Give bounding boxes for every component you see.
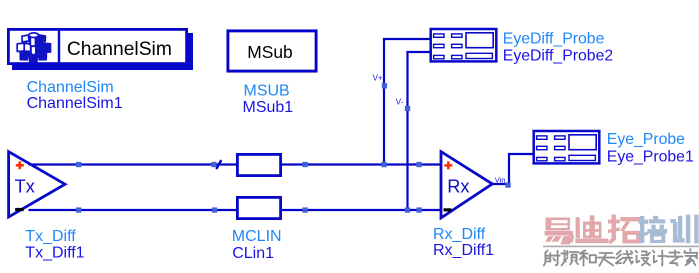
ChannelSim divider xyxy=(58,28,60,65)
svg-text:Tx_Diff1: Tx_Diff1 xyxy=(25,244,84,261)
svg-text:MCLIN: MCLIN xyxy=(232,228,282,245)
svg-text:MSUB: MSUB xyxy=(244,83,290,100)
component ChannelSim1 shadow xyxy=(12,33,193,70)
svg-text:MSub1: MSub1 xyxy=(243,99,294,116)
svg-text:Eye_Probe1: Eye_Probe1 xyxy=(607,148,694,165)
tagline char Jia xyxy=(684,249,697,265)
tagline char Ji xyxy=(653,251,657,263)
junction bottom wire x78 xyxy=(76,207,81,212)
pin slash on top wire xyxy=(216,160,221,169)
svg-text:Tx: Tx xyxy=(15,177,35,197)
Rx plus pin mark xyxy=(444,161,452,169)
svg-text:CLin1: CLin1 xyxy=(232,245,274,262)
svg-text:ChannelSim: ChannelSim xyxy=(27,79,114,96)
svg-text:Vin: Vin xyxy=(495,175,506,184)
wire V+ vertical to EyeDiff probe xyxy=(384,39,430,165)
watermark tagline (vector CJK strokes) xyxy=(544,249,698,266)
watermark char Pei xyxy=(638,216,667,243)
wire V- vertical to EyeDiff probe xyxy=(408,52,430,210)
svg-text:Rx_Diff1: Rx_Diff1 xyxy=(433,242,494,259)
tagline char She2 xyxy=(636,251,640,263)
watermark char Yi xyxy=(545,218,575,245)
tagline char Pin xyxy=(561,250,567,265)
junction bottom wire x214 xyxy=(212,207,217,212)
Rx minus pin mark xyxy=(444,208,452,211)
junction top wire x214 xyxy=(211,162,216,167)
svg-text:EyeDiff_Probe: EyeDiff_Probe xyxy=(503,30,605,47)
watermark underline xyxy=(543,246,699,248)
component MSub1 box xyxy=(228,31,316,71)
component ChannelSim1 box xyxy=(8,29,186,63)
ChannelSim gear icon xyxy=(17,33,50,62)
svg-text:ChannelSim: ChannelSim xyxy=(67,39,172,60)
component CLin1 MCLIN bottom line rect xyxy=(237,197,280,218)
node V+ xyxy=(382,83,387,88)
component Eye_Probe1 scope icon xyxy=(534,131,600,163)
svg-text:V-: V- xyxy=(396,98,404,107)
svg-text:ChannelSim1: ChannelSim1 xyxy=(27,95,123,112)
svg-text:Rx_Diff: Rx_Diff xyxy=(433,226,486,243)
junction top wire x305 xyxy=(302,162,307,167)
svg-text:V+: V+ xyxy=(373,74,383,83)
junction bottom wire x305 xyxy=(302,207,307,212)
Tx minus pin mark xyxy=(15,208,24,211)
junction top wire x384 tee xyxy=(381,162,386,167)
component Tx_Diff1 triangle xyxy=(9,152,65,217)
node Vin xyxy=(505,182,510,187)
svg-text:Tx_Diff: Tx_Diff xyxy=(25,228,76,245)
component CLin1 MCLIN top line rect xyxy=(237,154,280,175)
wire Rx output to Eye probe xyxy=(492,154,533,184)
wire bottom N line xyxy=(29,209,441,211)
tagline char She xyxy=(544,251,551,266)
node V- xyxy=(405,106,410,111)
svg-text:Eye_Probe: Eye_Probe xyxy=(607,131,685,148)
svg-text:Rx: Rx xyxy=(447,176,469,196)
svg-text:MSub: MSub xyxy=(247,42,292,62)
tagline char Tian xyxy=(598,253,615,266)
junction bottom wire x419 xyxy=(416,207,421,212)
tagline char Xian xyxy=(616,251,622,264)
watermark char Di xyxy=(575,215,608,243)
svg-text:EyeDiff_Probe2: EyeDiff_Probe2 xyxy=(503,47,613,64)
junction top wire x419 xyxy=(416,162,421,167)
junction top wire x78 xyxy=(76,162,81,167)
component Rx_Diff1 triangle xyxy=(441,152,492,218)
junction bottom wire x407 tee xyxy=(405,207,410,212)
watermark char Tuo xyxy=(608,215,641,245)
watermark char Xun xyxy=(670,215,698,244)
component EyeDiff_Probe2 scope icon xyxy=(431,29,497,61)
wire top P line xyxy=(29,163,441,165)
Tx plus pin mark xyxy=(16,161,24,169)
tagline char He xyxy=(580,250,588,265)
tagline char Zhuan xyxy=(667,250,682,265)
